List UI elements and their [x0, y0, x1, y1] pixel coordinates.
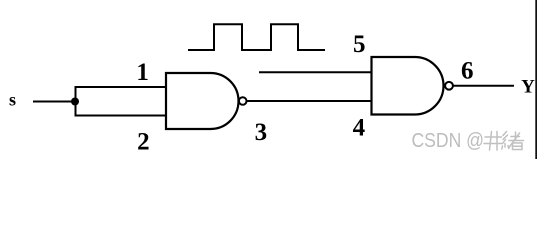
- wire pin 5: [259, 71, 372, 73]
- watermark CSDN: [412, 130, 524, 152]
- wire junction vertical: [75, 86, 77, 117]
- svg-text:4: 4: [353, 114, 366, 141]
- svg-text:3: 3: [255, 119, 268, 146]
- svg-text:s: s: [9, 90, 16, 110]
- NAND gate U1 body: [166, 73, 239, 129]
- svg-text:Y: Y: [521, 77, 535, 98]
- right border line: [535, 0, 537, 159]
- wire pin 3 to pin 4: [247, 100, 372, 102]
- wire pin 2: [75, 115, 168, 117]
- svg-text:5: 5: [353, 31, 366, 58]
- clock waveform: [188, 24, 325, 50]
- svg-text:6: 6: [461, 57, 474, 84]
- svg-text:2: 2: [137, 129, 150, 156]
- svg-text:CSDN @: CSDN @: [412, 130, 485, 152]
- wire pin 1: [75, 86, 168, 88]
- NAND gate U2 bubble: [445, 82, 453, 90]
- NAND gate U1 bubble: [239, 97, 247, 105]
- wire s input: [33, 101, 75, 103]
- junction dot: [71, 98, 79, 106]
- svg-text:1: 1: [136, 59, 149, 86]
- wire output Y: [453, 85, 514, 87]
- NAND gate U2 body: [372, 57, 444, 115]
